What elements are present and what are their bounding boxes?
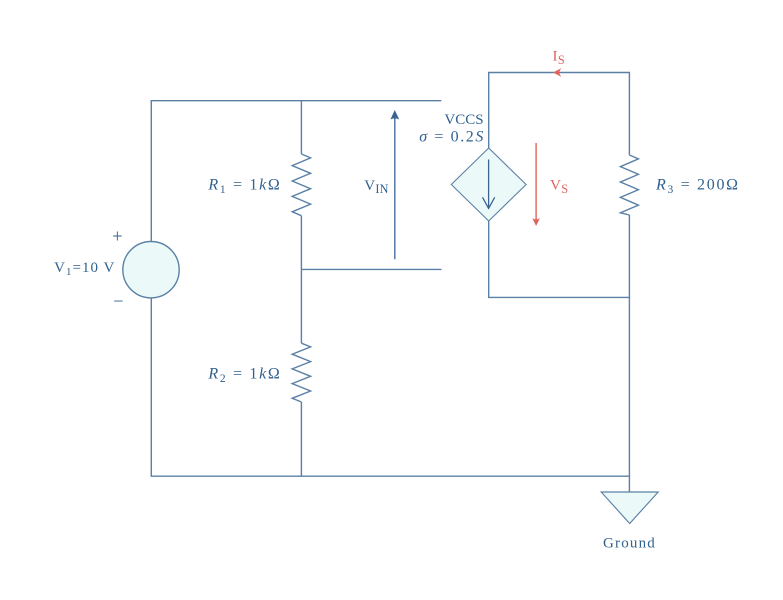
wire right vertical lower	[628, 215, 630, 477]
svg-text:+: +	[112, 228, 122, 248]
wire VCCS left upper	[488, 73, 490, 149]
svg-text:R1 = 1kΩ: R1 = 1kΩ	[207, 177, 281, 197]
arrow VIN shaft	[394, 114, 396, 259]
resistor R3	[620, 155, 638, 215]
svg-text:Ground: Ground	[603, 536, 656, 552]
svg-text:VCCS: VCCS	[444, 112, 483, 128]
resistor R1	[292, 154, 310, 216]
voltage source V1	[123, 242, 179, 298]
wire bottom horizontal	[151, 475, 630, 477]
arrow VIN head	[390, 110, 399, 120]
svg-text:IS: IS	[553, 49, 566, 67]
wire R1 to R2	[300, 216, 302, 344]
wire R2 bottom	[300, 402, 302, 477]
wire right vertical upper	[628, 73, 630, 156]
svg-text:V1=10 V: V1=10 V	[54, 260, 115, 278]
wire VCCS loop top	[488, 72, 630, 74]
wire left vertical upper	[150, 100, 152, 242]
wire VCCS loop bottom	[488, 296, 630, 298]
wire top horizontal	[151, 100, 442, 102]
svg-text:R2 = 1kΩ: R2 = 1kΩ	[207, 366, 281, 386]
svg-text:−: −	[113, 291, 123, 311]
wire VCCS left lower	[488, 221, 490, 298]
wire mid horizontal	[301, 268, 441, 270]
VCCS diamond	[451, 148, 526, 221]
svg-text:σ = 0.2S: σ = 0.2S	[419, 129, 485, 146]
wire left vertical lower	[150, 298, 152, 477]
arrow VS shaft	[535, 143, 537, 222]
arrow inside VCCS head	[483, 197, 495, 208]
arrow IS head	[553, 68, 561, 76]
resistor R2	[292, 343, 310, 402]
svg-text:VS: VS	[550, 177, 568, 196]
arrow VS head	[532, 218, 540, 226]
ground triangle	[601, 492, 658, 524]
ground stem	[628, 476, 630, 492]
arrow inside VCCS shaft	[488, 160, 490, 209]
wire R1 branch top	[300, 100, 302, 154]
svg-text:VIN: VIN	[364, 178, 389, 196]
svg-text:R3 = 200Ω: R3 = 200Ω	[655, 177, 740, 197]
